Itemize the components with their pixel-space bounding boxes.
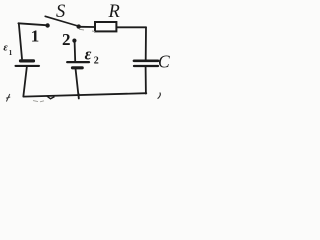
svg-text:1: 1 xyxy=(31,27,40,46)
switch S pivot node xyxy=(77,25,81,29)
wire top-left horizontal xyxy=(18,23,46,25)
wire contact 2 down to battery E2 xyxy=(74,42,77,61)
switch S lever xyxy=(45,16,77,26)
svg-text:2: 2 xyxy=(94,56,99,67)
svg-text:2: 2 xyxy=(62,30,71,49)
battery E1 long thin plate xyxy=(16,65,40,67)
wire battery E1 to bottom xyxy=(23,67,26,96)
faint noise marks xyxy=(33,29,95,102)
svg-text:S: S xyxy=(56,2,65,22)
svg-text:C: C xyxy=(158,52,170,72)
node contact 2 xyxy=(73,39,77,43)
svg-text:1: 1 xyxy=(9,49,13,57)
stray mark bottom-left xyxy=(6,94,10,102)
junction tick bottom middle xyxy=(77,94,79,99)
svg-text:R: R xyxy=(108,2,120,22)
battery E1 short thick plate xyxy=(21,59,34,62)
svg-text:ε: ε xyxy=(85,45,92,64)
node contact 1 (switch left contact) xyxy=(46,24,50,28)
wire battery E2 to bottom junction xyxy=(76,69,79,95)
battery E2 long thin plate xyxy=(67,61,89,63)
wire right vertical lower xyxy=(145,67,147,93)
resistor R body xyxy=(95,22,116,31)
capacitor C top plate xyxy=(134,59,158,62)
wire left vertical upper xyxy=(19,23,22,59)
comma mark bottom-right xyxy=(158,93,161,99)
wire right vertical upper xyxy=(145,27,147,60)
wobble kink on bottom wire xyxy=(47,96,55,99)
wire resistor to right corner xyxy=(117,26,146,28)
battery E2 short thick plate xyxy=(73,66,83,69)
capacitor C bottom plate xyxy=(134,65,158,67)
wire bottom horizontal xyxy=(23,93,146,96)
svg-text:ε: ε xyxy=(3,42,8,53)
wire pivot to resistor xyxy=(81,26,94,28)
